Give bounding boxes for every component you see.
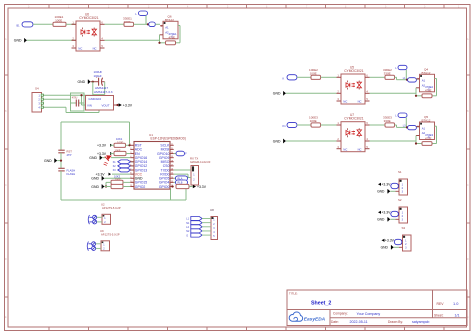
svg-text:GPIO16: GPIO16 — [135, 156, 148, 160]
svg-text:NC: NC — [93, 47, 97, 51]
svg-text:K2: K2 — [113, 165, 117, 168]
svg-text:Drawn By:: Drawn By: — [388, 320, 403, 324]
svg-text:K1: K1 — [283, 124, 287, 128]
svg-text:REV: REV — [437, 302, 445, 306]
wire — [33, 23, 53, 25]
svg-text:K1: K1 — [113, 161, 117, 164]
svg-text:B1: B1 — [17, 24, 21, 27]
svg-text:GPIO14: GPIO14 — [135, 160, 148, 164]
wire — [27, 39, 76, 41]
EasyEDA logo — [289, 312, 302, 321]
svg-text:EasyEDA: EasyEDA — [304, 317, 326, 323]
svg-text:GND: GND — [377, 190, 385, 194]
wire +3.3V out — [114, 104, 118, 106]
svg-text:ADC: ADC — [135, 148, 143, 152]
svg-text:GND: GND — [89, 156, 97, 160]
svg-text:+3.3V: +3.3V — [123, 103, 133, 107]
wire — [390, 218, 395, 220]
svg-text:GND: GND — [78, 80, 86, 84]
wire — [105, 23, 125, 25]
wire VIN — [81, 95, 83, 105]
svg-text:B: B — [5, 111, 7, 113]
wire — [174, 169, 191, 171]
wire — [395, 76, 397, 78]
net flag GPIO10 — [174, 153, 176, 155]
wire rail — [370, 92, 417, 94]
junction — [171, 185, 173, 187]
svg-text:K3: K3 — [113, 169, 117, 172]
power flag +3.3V (GPIO0) — [189, 186, 193, 188]
wire — [110, 153, 114, 155]
svg-text:ESP-12F(ESP8266MOD): ESP-12F(ESP8266MOD) — [151, 137, 186, 141]
wire — [405, 117, 407, 127]
svg-text:NC: NC — [343, 147, 347, 151]
svg-text:L1: L1 — [186, 218, 189, 221]
svg-text:Sheet:: Sheet: — [434, 313, 443, 317]
svg-text:10K1: 10K1 — [116, 137, 123, 141]
svg-text:AP.12TS-5.0-2P: AP.12TS-5.0-2P — [101, 233, 120, 237]
wire — [44, 94, 93, 96]
power flag +3.3V — [382, 239, 385, 242]
svg-text:GND: GND — [381, 246, 389, 250]
svg-text:VIN: VIN — [87, 104, 92, 108]
svg-text:RX TX: RX TX — [190, 157, 198, 161]
svg-text:+3.3V: +3.3V — [197, 185, 207, 189]
wire — [321, 124, 337, 126]
svg-text:N1: N1 — [186, 222, 190, 225]
wire — [297, 124, 311, 126]
svg-text:A: A — [467, 38, 469, 41]
wire — [286, 92, 337, 94]
svg-text:AMS1117-3.3: AMS1117-3.3 — [94, 90, 113, 94]
svg-text:D: D — [5, 259, 7, 261]
svg-text:U2: U2 — [101, 203, 105, 207]
svg-text:NC: NC — [78, 47, 82, 51]
svg-text:+3.3V: +3.3V — [381, 211, 391, 215]
svg-text:A: A — [5, 38, 7, 41]
svg-text:+3.3V: +3.3V — [97, 152, 107, 156]
svg-text:GPIO9: GPIO9 — [159, 156, 170, 160]
wire — [92, 82, 94, 96]
wire — [145, 15, 147, 24]
svg-text:470E: 470E — [425, 136, 432, 140]
wire — [65, 107, 67, 112]
svg-text:+3.3V: +3.3V — [97, 144, 107, 148]
svg-text:CS0: CS0 — [163, 164, 170, 168]
wire rail — [105, 39, 160, 41]
svg-text:GZDwR-11-02-03: GZDwR-11-02-03 — [190, 160, 211, 164]
svg-text:RXD0: RXD0 — [160, 172, 169, 176]
svg-text:GND: GND — [273, 139, 281, 143]
svg-text:U9: U9 — [100, 229, 104, 233]
svg-text:TXD0: TXD0 — [161, 168, 170, 172]
svg-text:470E: 470E — [425, 89, 432, 93]
wire — [370, 76, 386, 78]
svg-text:C: C — [5, 185, 7, 187]
junction — [406, 79, 408, 81]
svg-text:GND: GND — [273, 92, 281, 96]
wire — [416, 126, 419, 128]
svg-text:GPIO4: GPIO4 — [159, 181, 170, 185]
svg-text:D: D — [467, 259, 469, 261]
wire — [395, 124, 397, 126]
svg-text:470U: 470U — [72, 98, 78, 100]
svg-text:GND: GND — [377, 218, 385, 222]
svg-text:FLASH: FLASH — [67, 172, 76, 176]
svg-text:RST: RST — [135, 144, 143, 148]
resistor 10K5 — [176, 184, 189, 188]
net flag (switch) — [394, 239, 402, 244]
svg-text:NC: NC — [358, 147, 362, 151]
junction — [406, 126, 408, 128]
svg-text:GPIO12: GPIO12 — [135, 164, 148, 168]
svg-text:GPIO2: GPIO2 — [135, 185, 146, 189]
svg-text:GPIO13: GPIO13 — [135, 168, 148, 172]
wire — [321, 76, 337, 78]
svg-text:S2: S2 — [398, 198, 402, 202]
svg-text:SCLK: SCLK — [160, 144, 170, 148]
svg-text:Company:: Company: — [333, 312, 348, 316]
svg-text:C: C — [467, 185, 469, 187]
svg-text:100uF: 100uF — [94, 74, 102, 78]
wire — [297, 76, 311, 78]
svg-text:L: L — [135, 12, 137, 16]
svg-text:L: L — [395, 66, 397, 70]
wire RST net — [61, 121, 130, 123]
capacitor RST — [58, 149, 64, 151]
wire — [110, 144, 114, 146]
svg-text:AP.12TS-5.0-2P: AP.12TS-5.0-2P — [102, 206, 121, 210]
svg-text:F: F — [185, 153, 187, 156]
net flag RLA — [174, 177, 176, 179]
net flag RLB — [174, 181, 176, 183]
svg-text:+3.3V: +3.3V — [96, 172, 106, 176]
svg-text:K: K — [283, 76, 285, 80]
svg-text:VOUT: VOUT — [102, 104, 110, 108]
svg-text:satyampcb: satyampcb — [412, 320, 429, 324]
wire — [66, 23, 76, 25]
svg-text:Your Company: Your Company — [357, 312, 381, 316]
svg-text:CYMOC3021: CYMOC3021 — [344, 117, 364, 121]
svg-text:+3.3V: +3.3V — [385, 239, 395, 243]
svg-text:B: B — [467, 111, 469, 113]
svg-text:GND: GND — [14, 39, 22, 43]
wire — [416, 78, 419, 80]
svg-text:GPIO10: GPIO10 — [157, 152, 170, 156]
svg-text:A1: A1 — [422, 126, 426, 130]
svg-text:GND: GND — [135, 177, 143, 181]
wire FLASH net — [60, 171, 62, 200]
net flag (switch) — [391, 183, 399, 188]
svg-text:CYMOC3021: CYMOC3021 — [344, 69, 364, 73]
svg-text:1/1: 1/1 — [455, 314, 460, 318]
svg-text:GPIO5: GPIO5 — [159, 177, 170, 181]
wire rail — [370, 140, 417, 142]
net flag (switch) — [391, 211, 399, 216]
wire — [60, 153, 62, 169]
svg-text:S3: S3 — [402, 226, 406, 230]
svg-text:S4: S4 — [35, 86, 39, 90]
svg-text:CYMOC3021: CYMOC3021 — [79, 16, 99, 20]
wire — [405, 70, 407, 80]
wire — [57, 160, 61, 162]
svg-text:Date:: Date: — [331, 320, 339, 324]
wire — [105, 177, 131, 179]
svg-text:L: L — [395, 114, 397, 118]
svg-text:GND: GND — [44, 159, 52, 163]
power flag +3.3V — [119, 103, 122, 107]
svg-text:NC: NC — [358, 100, 362, 104]
wire — [134, 23, 149, 25]
svg-text:EN: EN — [135, 152, 140, 156]
power flag +3.3V — [378, 211, 381, 214]
svg-text:4TP: 4TP — [67, 153, 72, 157]
svg-text:1.0: 1.0 — [453, 301, 459, 306]
junction — [147, 23, 149, 25]
wire — [394, 246, 399, 248]
svg-text:MOSI: MOSI — [161, 148, 170, 152]
net flag L (gate) — [149, 22, 156, 27]
svg-text:NC: NC — [343, 100, 347, 104]
title block — [287, 290, 467, 326]
svg-text:S1: S1 — [398, 170, 402, 174]
svg-text:G: G — [186, 234, 188, 237]
green box — [71, 93, 85, 111]
capacitor FLASH — [58, 167, 64, 169]
svg-text:E: E — [5, 317, 7, 319]
svg-text:2022-05-11: 2022-05-11 — [350, 320, 368, 324]
svg-text:Sheet_2: Sheet_2 — [311, 301, 331, 307]
LED D1 — [103, 157, 106, 159]
svg-text:N2: N2 — [186, 230, 190, 233]
svg-text:VCC: VCC — [135, 172, 143, 176]
resistor 10K4 — [111, 184, 123, 188]
svg-text:U8: U8 — [210, 208, 214, 212]
wire — [155, 23, 160, 25]
svg-text:L2: L2 — [186, 226, 189, 229]
power flag +3.3V — [378, 183, 381, 186]
svg-text:MISO: MISO — [161, 160, 170, 164]
wire — [286, 140, 337, 142]
svg-text:A1: A1 — [165, 26, 169, 30]
svg-text:GPIO0: GPIO0 — [159, 185, 170, 189]
svg-text:GND: GND — [91, 185, 99, 189]
wire — [390, 190, 395, 192]
svg-text:GND: GND — [91, 177, 99, 181]
svg-text:A1: A1 — [422, 79, 426, 83]
svg-text:TITLE:: TITLE: — [289, 291, 298, 295]
wire — [106, 181, 111, 183]
wire — [370, 124, 386, 126]
svg-text:GPIO15: GPIO15 — [135, 181, 148, 185]
svg-text:10K3: 10K3 — [114, 174, 121, 178]
svg-text:FLASH: FLASH — [67, 168, 76, 172]
svg-text:470E: 470E — [169, 36, 176, 40]
svg-text:+3.3V: +3.3V — [381, 183, 391, 187]
svg-text:GND/ADJ: GND/ADJ — [89, 97, 102, 101]
svg-text:RST: RST — [67, 150, 73, 154]
